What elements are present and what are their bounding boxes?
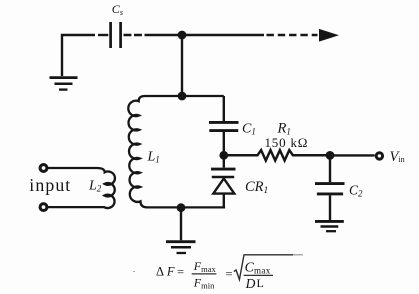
wire top rail solid	[152, 34, 264, 36]
capacitor Cs	[98, 34, 108, 36]
node mid junction	[178, 92, 187, 101]
wire vertical from top rail	[181, 35, 183, 96]
svg-text:Vin: Vin	[390, 149, 405, 165]
formula delta F	[133, 255, 303, 291]
ground main	[166, 240, 196, 243]
svg-text:=: =	[226, 267, 233, 281]
node top junction	[178, 31, 187, 40]
capacitor C2	[329, 155, 331, 182]
ground	[50, 76, 78, 79]
radical sign	[234, 255, 293, 280]
wire left vertical to ground	[62, 35, 95, 76]
svg-text:=: =	[177, 265, 184, 279]
svg-text:input: input	[29, 175, 71, 195]
svg-text:D: D	[245, 276, 256, 291]
inductor L2	[47, 168, 115, 208]
node output junction	[326, 151, 335, 160]
capacitor C1	[223, 96, 225, 121]
wire to main ground	[180, 208, 182, 241]
terminal Vin	[376, 153, 382, 159]
input terminal top	[40, 165, 47, 172]
wire to Vin terminal	[330, 154, 375, 156]
resistor R1	[224, 150, 330, 160]
svg-text:CR1: CR1	[245, 179, 268, 196]
svg-text:ΔF: ΔF	[156, 264, 175, 278]
inductor L1	[128, 96, 225, 207]
arrowhead	[319, 29, 339, 42]
svg-text:L2: L2	[88, 179, 102, 194]
svg-text:C2: C2	[349, 182, 363, 198]
ground C2	[315, 220, 344, 223]
svg-text:150 kΩ: 150 kΩ	[265, 135, 309, 150]
svg-text:Fmax: Fmax	[193, 259, 217, 274]
svg-text:R1: R1	[277, 120, 291, 136]
input terminal bottom	[40, 204, 47, 211]
svg-text:.: .	[133, 265, 135, 274]
node under C1	[219, 151, 228, 160]
svg-text:C1: C1	[242, 121, 256, 136]
svg-text:Fmin: Fmin	[193, 276, 215, 291]
svg-text:L: L	[257, 276, 264, 290]
wire dashed to arrow	[267, 34, 318, 36]
svg-text:Cmax: Cmax	[245, 260, 271, 275]
varactor CR1	[223, 155, 225, 167]
node bottom junction	[177, 203, 186, 212]
svg-text:Cs: Cs	[112, 2, 123, 17]
svg-text:L1: L1	[147, 149, 160, 164]
